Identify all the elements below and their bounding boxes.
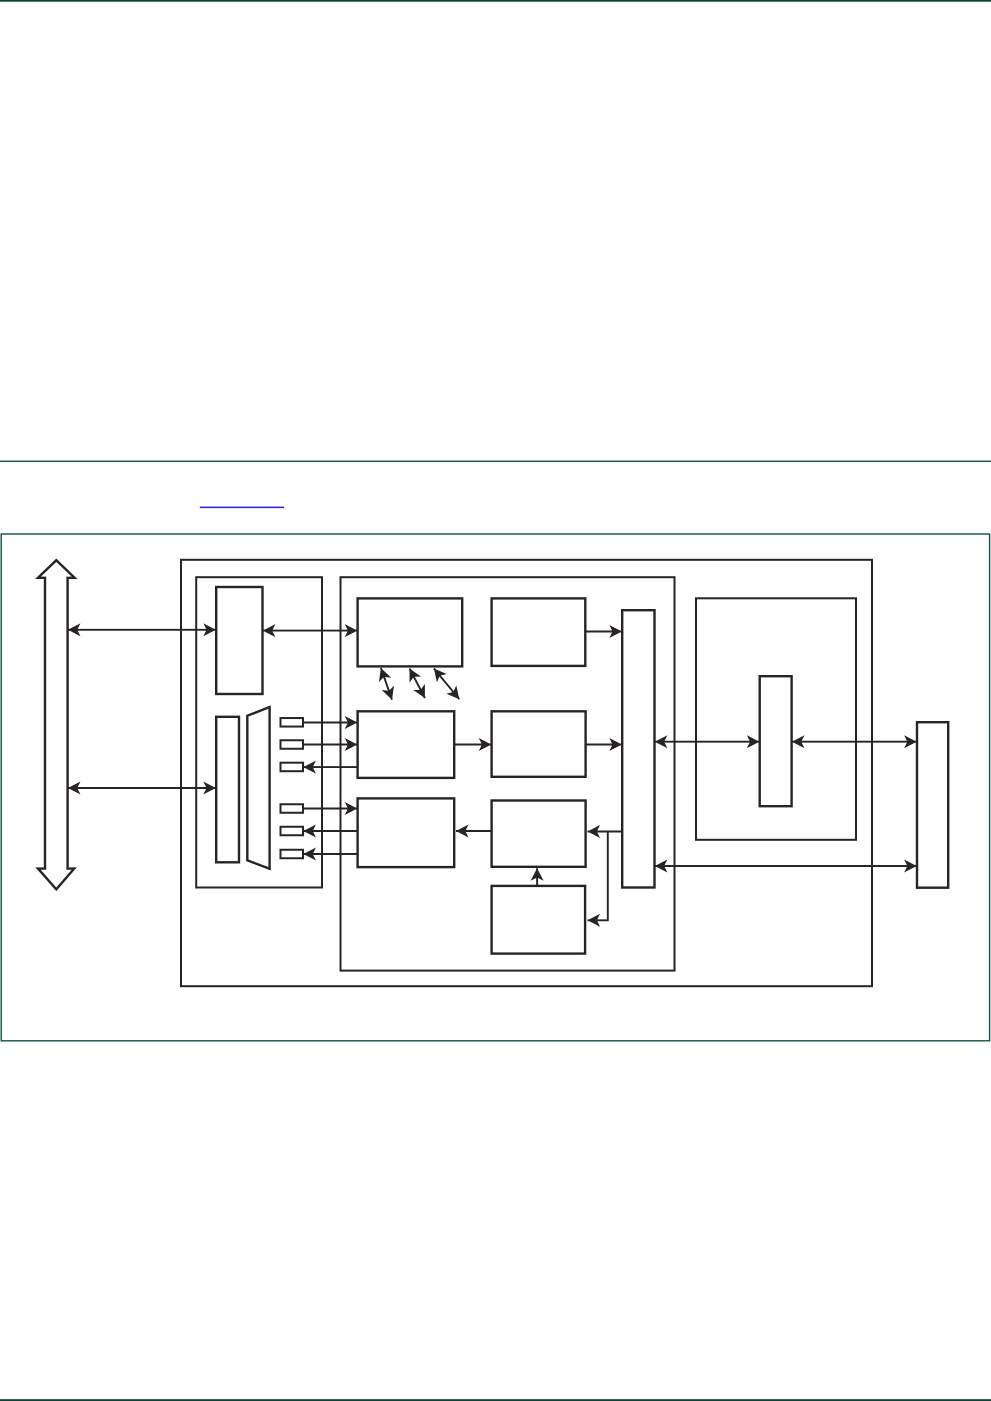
right narrow rect RNR xyxy=(917,722,948,888)
pad 5 xyxy=(281,827,304,836)
wire pad2 to CB2 xyxy=(303,744,357,746)
B4 inner rect IR xyxy=(760,676,792,806)
wire IR to RNR (double arrow) xyxy=(792,741,917,743)
bus block arrow xyxy=(38,560,75,889)
wire CB2 to CB3 xyxy=(454,744,491,746)
central box CB0 (top-middle) xyxy=(492,598,586,666)
figure frame (green) xyxy=(1,534,989,1041)
central box CB2 (middle-left) xyxy=(358,711,455,778)
page top rule xyxy=(0,0,991,2)
wire pad4 to CB4 xyxy=(303,808,357,810)
left sub-block B2 xyxy=(196,577,322,887)
wire CB4 to pad5 xyxy=(303,830,357,832)
pad 2 xyxy=(281,740,304,749)
wire CB4 to pad6 xyxy=(303,853,357,855)
pad 6 xyxy=(281,850,304,859)
diagonal link arrow 3 xyxy=(434,669,459,700)
wire TR2 to IR (double arrow) xyxy=(655,741,760,743)
diagonal link arrow 1 xyxy=(381,668,392,700)
pad 1 xyxy=(281,718,304,727)
page mid rule xyxy=(0,461,991,462)
driver trapezoid xyxy=(247,707,269,869)
wire CB2 to pad3 xyxy=(303,766,357,768)
wire CB6 to CB5 (up arrow) xyxy=(536,868,538,886)
wire pad1 to CB2 xyxy=(303,722,357,724)
pad 4 xyxy=(281,804,304,813)
outer block B1 xyxy=(181,560,872,986)
wire TR2 to CB5 xyxy=(588,831,623,833)
pad 3 xyxy=(281,763,304,772)
central sub-block B3 xyxy=(341,577,675,970)
wire bus to TR1 (double arrow) xyxy=(68,629,216,631)
central box CB4 (lower-left) xyxy=(358,798,455,867)
wire TR2 to RNR lower (double arrow) xyxy=(655,865,917,867)
wire CB3 to TR2 xyxy=(586,744,622,746)
wire CB5 to CB4 xyxy=(456,830,491,832)
diagonal link arrow 2 xyxy=(410,669,425,699)
narrow rect NR1 (left section, bottom) xyxy=(216,717,239,863)
right sub-block B4 xyxy=(696,598,856,840)
wire elbow TR2 line down to CB6 xyxy=(588,832,608,921)
tall rect TR1 (left section, top) xyxy=(216,587,262,694)
central box CB5 (lower-center) xyxy=(492,801,586,867)
wire bus to NR1 (double arrow) xyxy=(68,787,216,789)
central box CB6 (bottom-center) xyxy=(492,886,585,954)
page bottom rule xyxy=(0,1399,991,1401)
central box CB3 (middle-center) xyxy=(492,711,586,777)
central box CB1 (top-left) xyxy=(358,598,463,666)
wire TR1 to CB1 (double arrow) xyxy=(263,630,358,632)
tall rect TR2 (central, right) xyxy=(622,610,654,887)
hyperlink underline xyxy=(200,507,284,509)
wire CB0 to TR2 xyxy=(585,631,622,633)
